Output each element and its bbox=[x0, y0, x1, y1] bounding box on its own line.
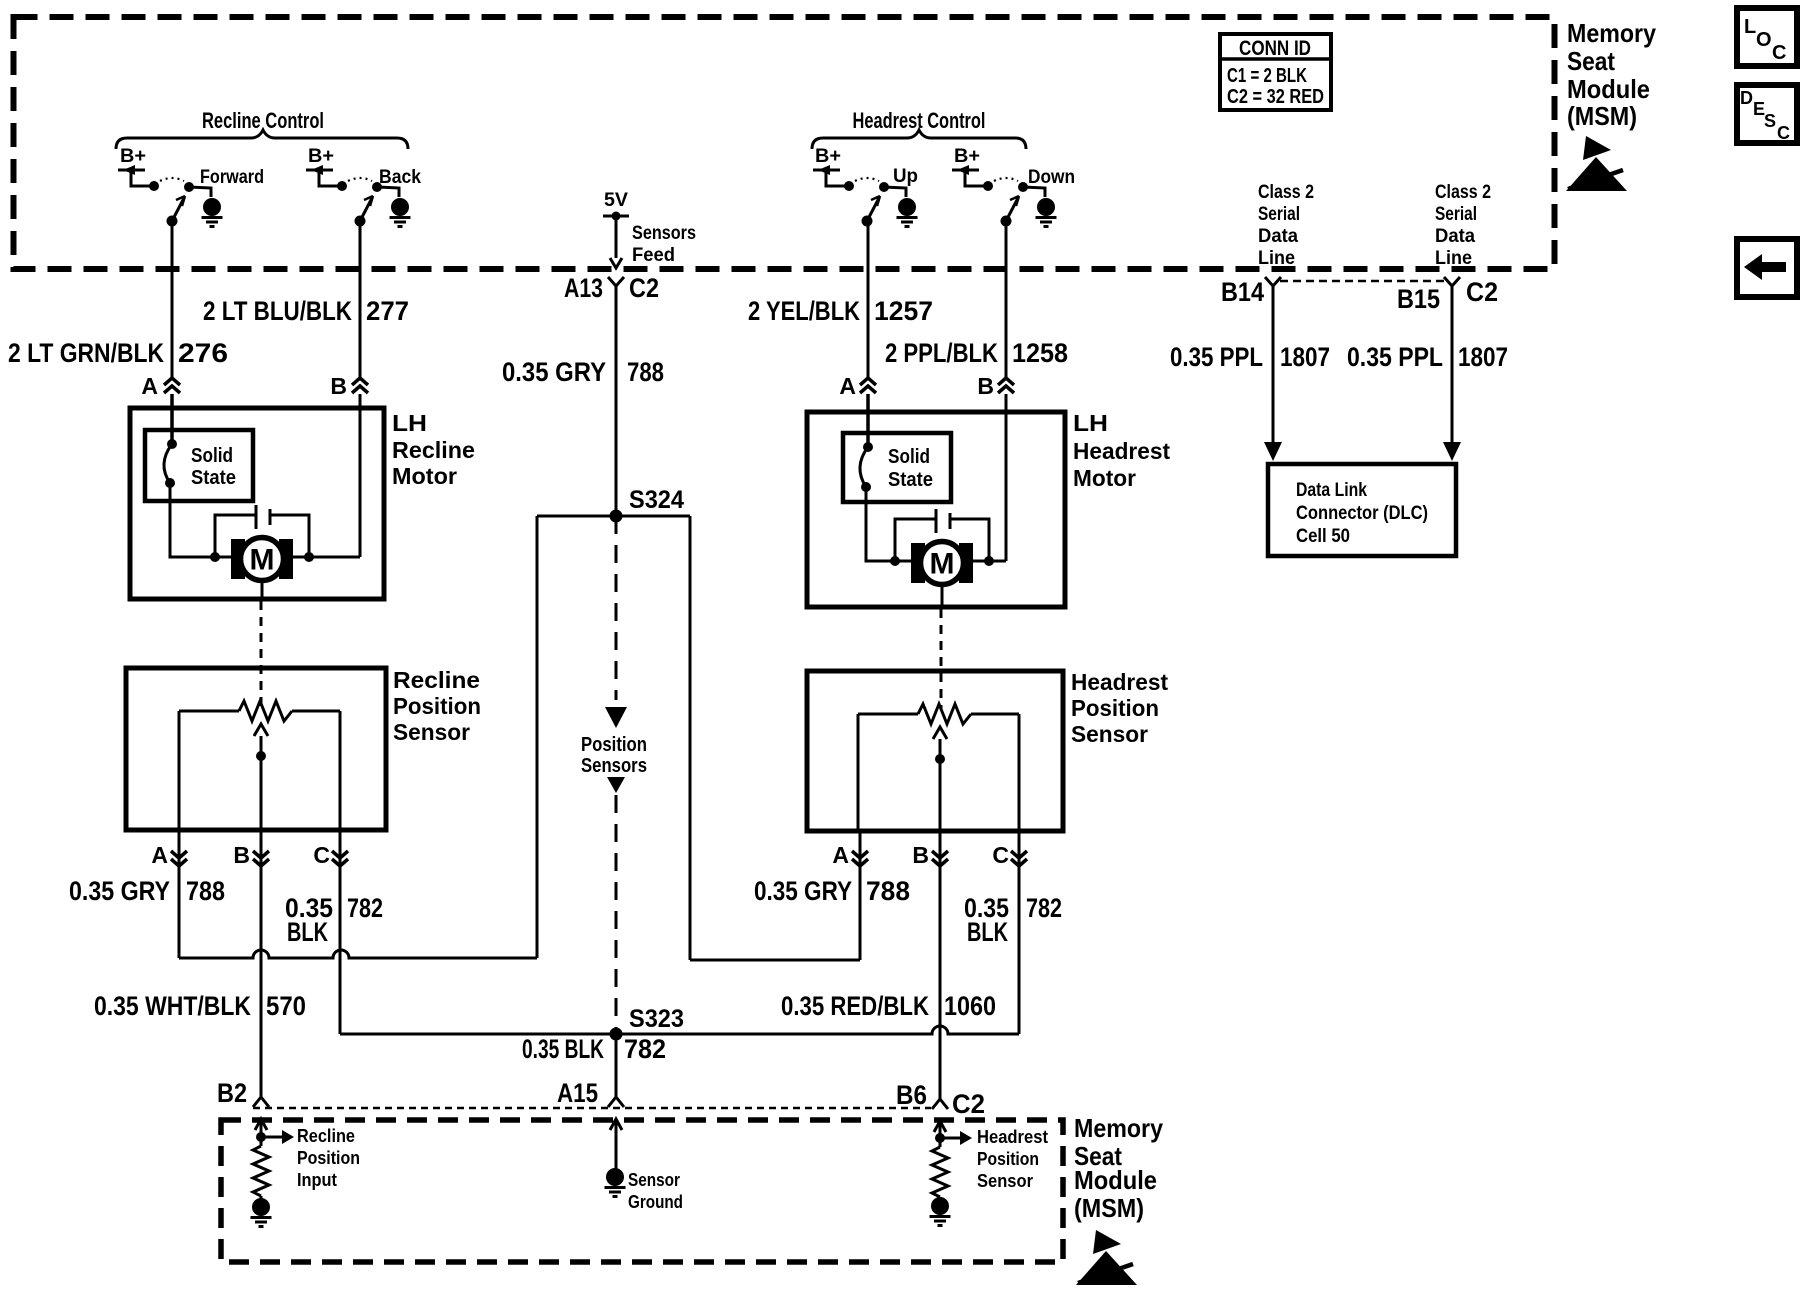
svg-text:Data: Data bbox=[1435, 226, 1475, 247]
svg-text:C2 = 32 RED: C2 = 32 RED bbox=[1227, 86, 1324, 108]
svg-text:2 PPL/BLK: 2 PPL/BLK bbox=[885, 338, 998, 368]
svg-text:Motor: Motor bbox=[392, 463, 457, 489]
svg-text:Headrest: Headrest bbox=[1073, 438, 1170, 464]
svg-text:O: O bbox=[1756, 29, 1772, 51]
svg-text:788: 788 bbox=[627, 357, 664, 387]
svg-text:Down: Down bbox=[1028, 167, 1075, 188]
svg-text:277: 277 bbox=[366, 296, 409, 326]
svg-text:2 LT BLU/BLK: 2 LT BLU/BLK bbox=[203, 296, 352, 326]
svg-text:Sensor: Sensor bbox=[628, 1170, 680, 1190]
svg-text:0.35 PPL: 0.35 PPL bbox=[1170, 342, 1263, 372]
svg-text:S323: S323 bbox=[629, 1005, 684, 1033]
svg-text:Position: Position bbox=[977, 1149, 1039, 1169]
svg-text:BLK: BLK bbox=[967, 917, 1008, 947]
svg-text:2 LT GRN/BLK: 2 LT GRN/BLK bbox=[8, 338, 164, 368]
svg-text:Class 2: Class 2 bbox=[1435, 182, 1491, 203]
svg-text:0.35 GRY: 0.35 GRY bbox=[69, 876, 170, 906]
svg-text:Sensors: Sensors bbox=[632, 223, 696, 244]
svg-text:788: 788 bbox=[866, 876, 910, 906]
svg-text:Seat: Seat bbox=[1567, 46, 1615, 76]
svg-text:State: State bbox=[888, 469, 933, 491]
svg-text:Sensor: Sensor bbox=[977, 1171, 1033, 1191]
svg-text:State: State bbox=[191, 467, 236, 489]
svg-text:Serial: Serial bbox=[1435, 204, 1477, 225]
svg-text:Memory: Memory bbox=[1567, 18, 1656, 48]
svg-text:0.35 RED/BLK: 0.35 RED/BLK bbox=[781, 991, 929, 1021]
svg-text:B: B bbox=[233, 842, 250, 868]
svg-text:(MSM): (MSM) bbox=[1074, 1193, 1144, 1223]
svg-text:B+: B+ bbox=[120, 146, 146, 167]
svg-text:A13: A13 bbox=[564, 273, 603, 303]
svg-text:1257: 1257 bbox=[874, 296, 933, 326]
svg-text:Feed: Feed bbox=[632, 245, 675, 266]
svg-text:0.35 PPL: 0.35 PPL bbox=[1347, 342, 1443, 372]
svg-text:C2: C2 bbox=[952, 1089, 985, 1119]
svg-text:B: B bbox=[330, 373, 347, 399]
svg-text:C: C bbox=[1777, 123, 1790, 143]
svg-text:0.35 GRY: 0.35 GRY bbox=[502, 357, 606, 387]
svg-text:LH: LH bbox=[1073, 410, 1108, 436]
svg-text:CONN ID: CONN ID bbox=[1239, 37, 1311, 60]
svg-text:0.35 GRY: 0.35 GRY bbox=[754, 876, 852, 906]
svg-text:C: C bbox=[313, 842, 330, 868]
svg-text:B6: B6 bbox=[896, 1080, 927, 1110]
svg-text:Recline: Recline bbox=[393, 667, 480, 693]
svg-text:1258: 1258 bbox=[1012, 338, 1068, 368]
svg-text:B: B bbox=[912, 842, 929, 868]
svg-text:Connector (DLC): Connector (DLC) bbox=[1296, 503, 1428, 524]
svg-text:Ground: Ground bbox=[628, 1192, 683, 1212]
svg-text:570: 570 bbox=[266, 991, 306, 1021]
svg-text:1060: 1060 bbox=[944, 991, 996, 1021]
svg-text:B2: B2 bbox=[217, 1078, 247, 1108]
svg-text:Data: Data bbox=[1258, 226, 1298, 247]
svg-text:BLK: BLK bbox=[287, 917, 328, 947]
svg-text:Headrest: Headrest bbox=[977, 1127, 1048, 1147]
svg-text:Module: Module bbox=[1074, 1165, 1157, 1195]
svg-text:276: 276 bbox=[178, 338, 228, 368]
svg-text:D: D bbox=[1740, 88, 1753, 108]
svg-text:C2: C2 bbox=[629, 273, 659, 303]
svg-text:B+: B+ bbox=[308, 146, 334, 167]
svg-text:Position: Position bbox=[297, 1148, 360, 1168]
svg-text:788: 788 bbox=[186, 876, 225, 906]
svg-text:5V: 5V bbox=[604, 190, 628, 211]
svg-text:B+: B+ bbox=[815, 146, 841, 167]
svg-text:Motor: Motor bbox=[1073, 465, 1136, 491]
svg-text:C: C bbox=[992, 842, 1009, 868]
svg-text:Cell 50: Cell 50 bbox=[1296, 526, 1350, 547]
svg-text:Solid: Solid bbox=[191, 445, 233, 467]
svg-text:A15: A15 bbox=[557, 1078, 598, 1108]
svg-text:Serial: Serial bbox=[1258, 204, 1300, 225]
svg-text:Back: Back bbox=[379, 167, 421, 188]
svg-text:782: 782 bbox=[624, 1034, 666, 1064]
svg-text:Input: Input bbox=[297, 1170, 337, 1190]
svg-text:Data Link: Data Link bbox=[1296, 480, 1367, 501]
svg-text:Sensor: Sensor bbox=[1071, 721, 1148, 747]
svg-text:2 YEL/BLK: 2 YEL/BLK bbox=[748, 296, 860, 326]
svg-text:A: A bbox=[141, 373, 158, 399]
svg-text:0.35 WHT/BLK: 0.35 WHT/BLK bbox=[94, 991, 251, 1021]
svg-text:Up: Up bbox=[893, 166, 918, 187]
svg-text:B: B bbox=[977, 373, 994, 399]
svg-text:C2: C2 bbox=[1466, 277, 1498, 307]
svg-text:L: L bbox=[1744, 16, 1756, 38]
svg-text:S324: S324 bbox=[629, 486, 684, 514]
svg-text:C: C bbox=[1772, 42, 1786, 64]
svg-text:A: A bbox=[832, 842, 849, 868]
svg-text:Line: Line bbox=[1258, 248, 1295, 269]
svg-text:Module: Module bbox=[1567, 74, 1650, 104]
svg-text:A: A bbox=[151, 842, 168, 868]
svg-text:Forward: Forward bbox=[200, 167, 264, 188]
svg-text:0.35 BLK: 0.35 BLK bbox=[522, 1034, 604, 1064]
svg-text:Position: Position bbox=[581, 734, 647, 756]
svg-text:Sensor: Sensor bbox=[393, 719, 470, 745]
svg-text:LH: LH bbox=[392, 410, 427, 436]
svg-text:S: S bbox=[1764, 111, 1776, 131]
svg-text:782: 782 bbox=[1026, 893, 1062, 923]
svg-text:Solid: Solid bbox=[888, 446, 930, 468]
svg-text:Headrest: Headrest bbox=[1071, 669, 1168, 695]
svg-text:1807: 1807 bbox=[1458, 342, 1508, 372]
svg-text:A: A bbox=[839, 373, 856, 399]
svg-text:C1 = 2 BLK: C1 = 2 BLK bbox=[1227, 65, 1307, 87]
svg-text:Position: Position bbox=[393, 693, 481, 719]
svg-text:B15: B15 bbox=[1397, 284, 1440, 314]
svg-text:(MSM): (MSM) bbox=[1567, 101, 1637, 131]
svg-text:B14: B14 bbox=[1221, 277, 1264, 307]
svg-text:Recline: Recline bbox=[297, 1126, 355, 1146]
svg-text:Sensors: Sensors bbox=[581, 755, 647, 777]
svg-text:Position: Position bbox=[1071, 695, 1159, 721]
svg-text:Recline: Recline bbox=[392, 437, 475, 463]
svg-text:Line: Line bbox=[1435, 248, 1472, 269]
svg-text:Memory: Memory bbox=[1074, 1113, 1163, 1143]
svg-text:1807: 1807 bbox=[1280, 342, 1330, 372]
svg-text:B+: B+ bbox=[954, 146, 980, 167]
svg-text:782: 782 bbox=[347, 893, 383, 923]
svg-text:Class 2: Class 2 bbox=[1258, 182, 1314, 203]
